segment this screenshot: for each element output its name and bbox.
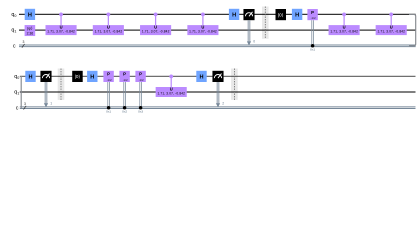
svg-text:1.71, 3.07, -0.842: 1.71, 3.07, -0.842 xyxy=(95,30,123,34)
control dot CU5 row1 xyxy=(342,13,346,17)
reset q0 row1 xyxy=(276,9,287,20)
gate CU6 row1 U-box xyxy=(376,25,407,36)
gate H q0 col1 row2 xyxy=(25,71,35,82)
wire q0 row1 xyxy=(19,13,416,15)
svg-text:H: H xyxy=(28,74,32,80)
svg-text:2: 2 xyxy=(222,101,224,105)
svg-text:|0⟩: |0⟩ xyxy=(75,74,81,79)
gate H q0 col4 row2 xyxy=(87,71,97,82)
control line CU4 row1 xyxy=(202,14,204,25)
gate P conditioned 0x1 row2 xyxy=(103,71,113,114)
svg-text:-π/2: -π/2 xyxy=(311,16,316,20)
control line CU1 row1 xyxy=(60,14,62,25)
svg-text:q0: q0 xyxy=(14,74,19,80)
svg-text:0x1: 0x1 xyxy=(310,48,315,52)
control line CU2 row1 xyxy=(107,14,109,25)
control dot CU3 row1 xyxy=(154,13,158,17)
svg-text:H: H xyxy=(199,74,203,80)
svg-text:|0⟩: |0⟩ xyxy=(278,12,284,17)
svg-text:1.71, 3.07, -0.842: 1.71, 3.07, -0.842 xyxy=(189,30,217,34)
gate CU5 row1 U-box xyxy=(329,25,360,36)
wire c row1 xyxy=(19,45,416,47)
svg-text:q1: q1 xyxy=(14,90,19,96)
gate CU3 row1 U-box xyxy=(140,25,171,36)
svg-text:1: 1 xyxy=(50,101,52,105)
control dot CU2 row1 xyxy=(106,13,110,17)
gate CU4 row1 U-box xyxy=(187,25,218,36)
control dot CU1 row1 xyxy=(59,13,63,17)
svg-text:H: H xyxy=(232,12,236,18)
svg-text:-π/2: -π/2 xyxy=(107,78,112,82)
svg-text:1.71, 3.07, -0.842: 1.71, 3.07, -0.842 xyxy=(330,30,358,34)
wire q1 row1 xyxy=(19,29,416,31)
control line CU7 row2 xyxy=(170,76,172,87)
svg-text:q0: q0 xyxy=(11,12,16,18)
svg-text:-π/2: -π/2 xyxy=(123,78,128,82)
svg-text:0x2: 0x2 xyxy=(122,110,127,114)
svg-text:1.71, 3.07, -0.842: 1.71, 3.07, -0.842 xyxy=(377,30,405,34)
creg size 3 row1 xyxy=(22,40,25,48)
svg-text:1.71, 3.07, -0.842: 1.71, 3.07, -0.842 xyxy=(157,92,185,96)
state prep |psi> q1 row1 xyxy=(25,25,36,36)
svg-text:2.36: 2.36 xyxy=(27,31,34,35)
control line CU6 row1 xyxy=(390,14,392,25)
gate CU2 row1 U-box xyxy=(93,25,124,36)
barrier 2 row2 xyxy=(231,69,238,100)
svg-text:P: P xyxy=(139,72,142,77)
svg-text:H: H xyxy=(295,12,299,18)
reset q0 row2 xyxy=(72,71,83,82)
control dot CU4 row1 xyxy=(201,13,205,17)
svg-text:0: 0 xyxy=(253,39,255,43)
control dot CU7 row2 xyxy=(169,75,173,79)
gate P conditioned 0x1 row1 xyxy=(307,9,317,52)
gate CU7 row2 U-box xyxy=(156,86,187,97)
svg-text:1.71, 3.07, -0.842: 1.71, 3.07, -0.842 xyxy=(47,30,75,34)
gate H q0 col9 row1 xyxy=(292,9,302,20)
svg-text:|ψ⟩: |ψ⟩ xyxy=(27,25,33,30)
svg-text:c: c xyxy=(16,105,19,111)
barrier 1 row2 xyxy=(58,69,65,100)
measure q0 to c2 row2 xyxy=(212,71,224,108)
measure q0 to c1 row2 xyxy=(40,71,52,108)
control line CU5 row1 xyxy=(343,14,345,25)
svg-text:0x1: 0x1 xyxy=(106,110,111,114)
gate H q0 col6 row1 xyxy=(229,9,239,20)
gate P conditioned 0x3 row2 xyxy=(135,71,145,114)
svg-text:P: P xyxy=(311,10,314,15)
control line CU3 row1 xyxy=(155,14,157,25)
svg-text:P: P xyxy=(107,72,110,77)
svg-text:3: 3 xyxy=(24,102,26,106)
gate H q0 col9 row2 xyxy=(196,71,206,82)
svg-text:0x3: 0x3 xyxy=(138,110,143,114)
wire q1 row2 xyxy=(20,91,416,93)
svg-text:c: c xyxy=(13,43,16,49)
wire c row2 xyxy=(20,107,416,109)
svg-text:H: H xyxy=(90,74,94,80)
gate P conditioned 0x2 row2 xyxy=(119,71,129,114)
wire q0 row2 xyxy=(20,75,416,77)
measure q0 to c0 row1 xyxy=(243,9,255,46)
svg-text:q1: q1 xyxy=(11,28,16,34)
gate CU1 row1 U-box xyxy=(46,25,77,36)
control dot CU6 row1 xyxy=(389,13,393,17)
svg-text:H: H xyxy=(28,12,32,18)
creg size 3 row2 xyxy=(24,102,27,110)
svg-text:3: 3 xyxy=(22,40,24,44)
svg-text:P: P xyxy=(123,72,126,77)
barrier row1 xyxy=(262,7,269,39)
fold feedline right row1 xyxy=(409,14,416,45)
svg-text:-π/2: -π/2 xyxy=(139,78,144,82)
gate H q0 col1 row1 xyxy=(25,9,35,20)
svg-text:1.71, 3.07, -0.842: 1.71, 3.07, -0.842 xyxy=(142,30,170,34)
fold feedline left row2 xyxy=(20,76,22,107)
